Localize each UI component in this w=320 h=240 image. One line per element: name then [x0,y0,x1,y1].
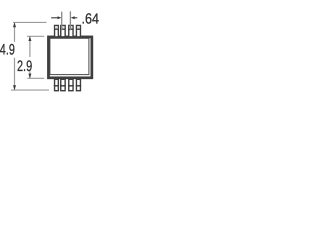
svg-text:4.9: 4.9 [0,42,15,59]
pin 3 (top row) [68,25,73,36]
pin 5 (bottom row, leftmost) [55,79,59,90]
package body U1 outer outline [48,37,91,78]
dimension .64 left arrow [51,16,61,19]
dimension .64 extension line (pin 3 center) [69,11,71,30]
dimension 4.9 bottom extension line [11,89,49,91]
pin 7 (bottom row) [69,79,73,90]
svg-text:.64: .64 [82,11,100,27]
pin 6 (bottom row) [61,79,65,90]
pin 4 (top row, rightmost) [76,25,81,36]
pin 2 (top row) [60,25,65,36]
dimension 2.9 top extension line [27,35,44,37]
package body inner top-surface outline [50,38,89,74]
dimension .64 extension line (pin 2 center) [61,12,63,31]
dimension 2.9 bottom extension line [27,77,44,79]
dimension 2.9 vertical dimension line [28,36,31,78]
pin 1 (top row, leftmost) [54,25,59,36]
svg-text:2.9: 2.9 [17,58,32,75]
pin 8 (bottom row, rightmost) [76,79,80,90]
dimension .64 right arrow [71,16,78,19]
dimension 4.9 vertical dimension line [13,22,16,90]
dimension 4.9 top extension line [13,21,47,23]
